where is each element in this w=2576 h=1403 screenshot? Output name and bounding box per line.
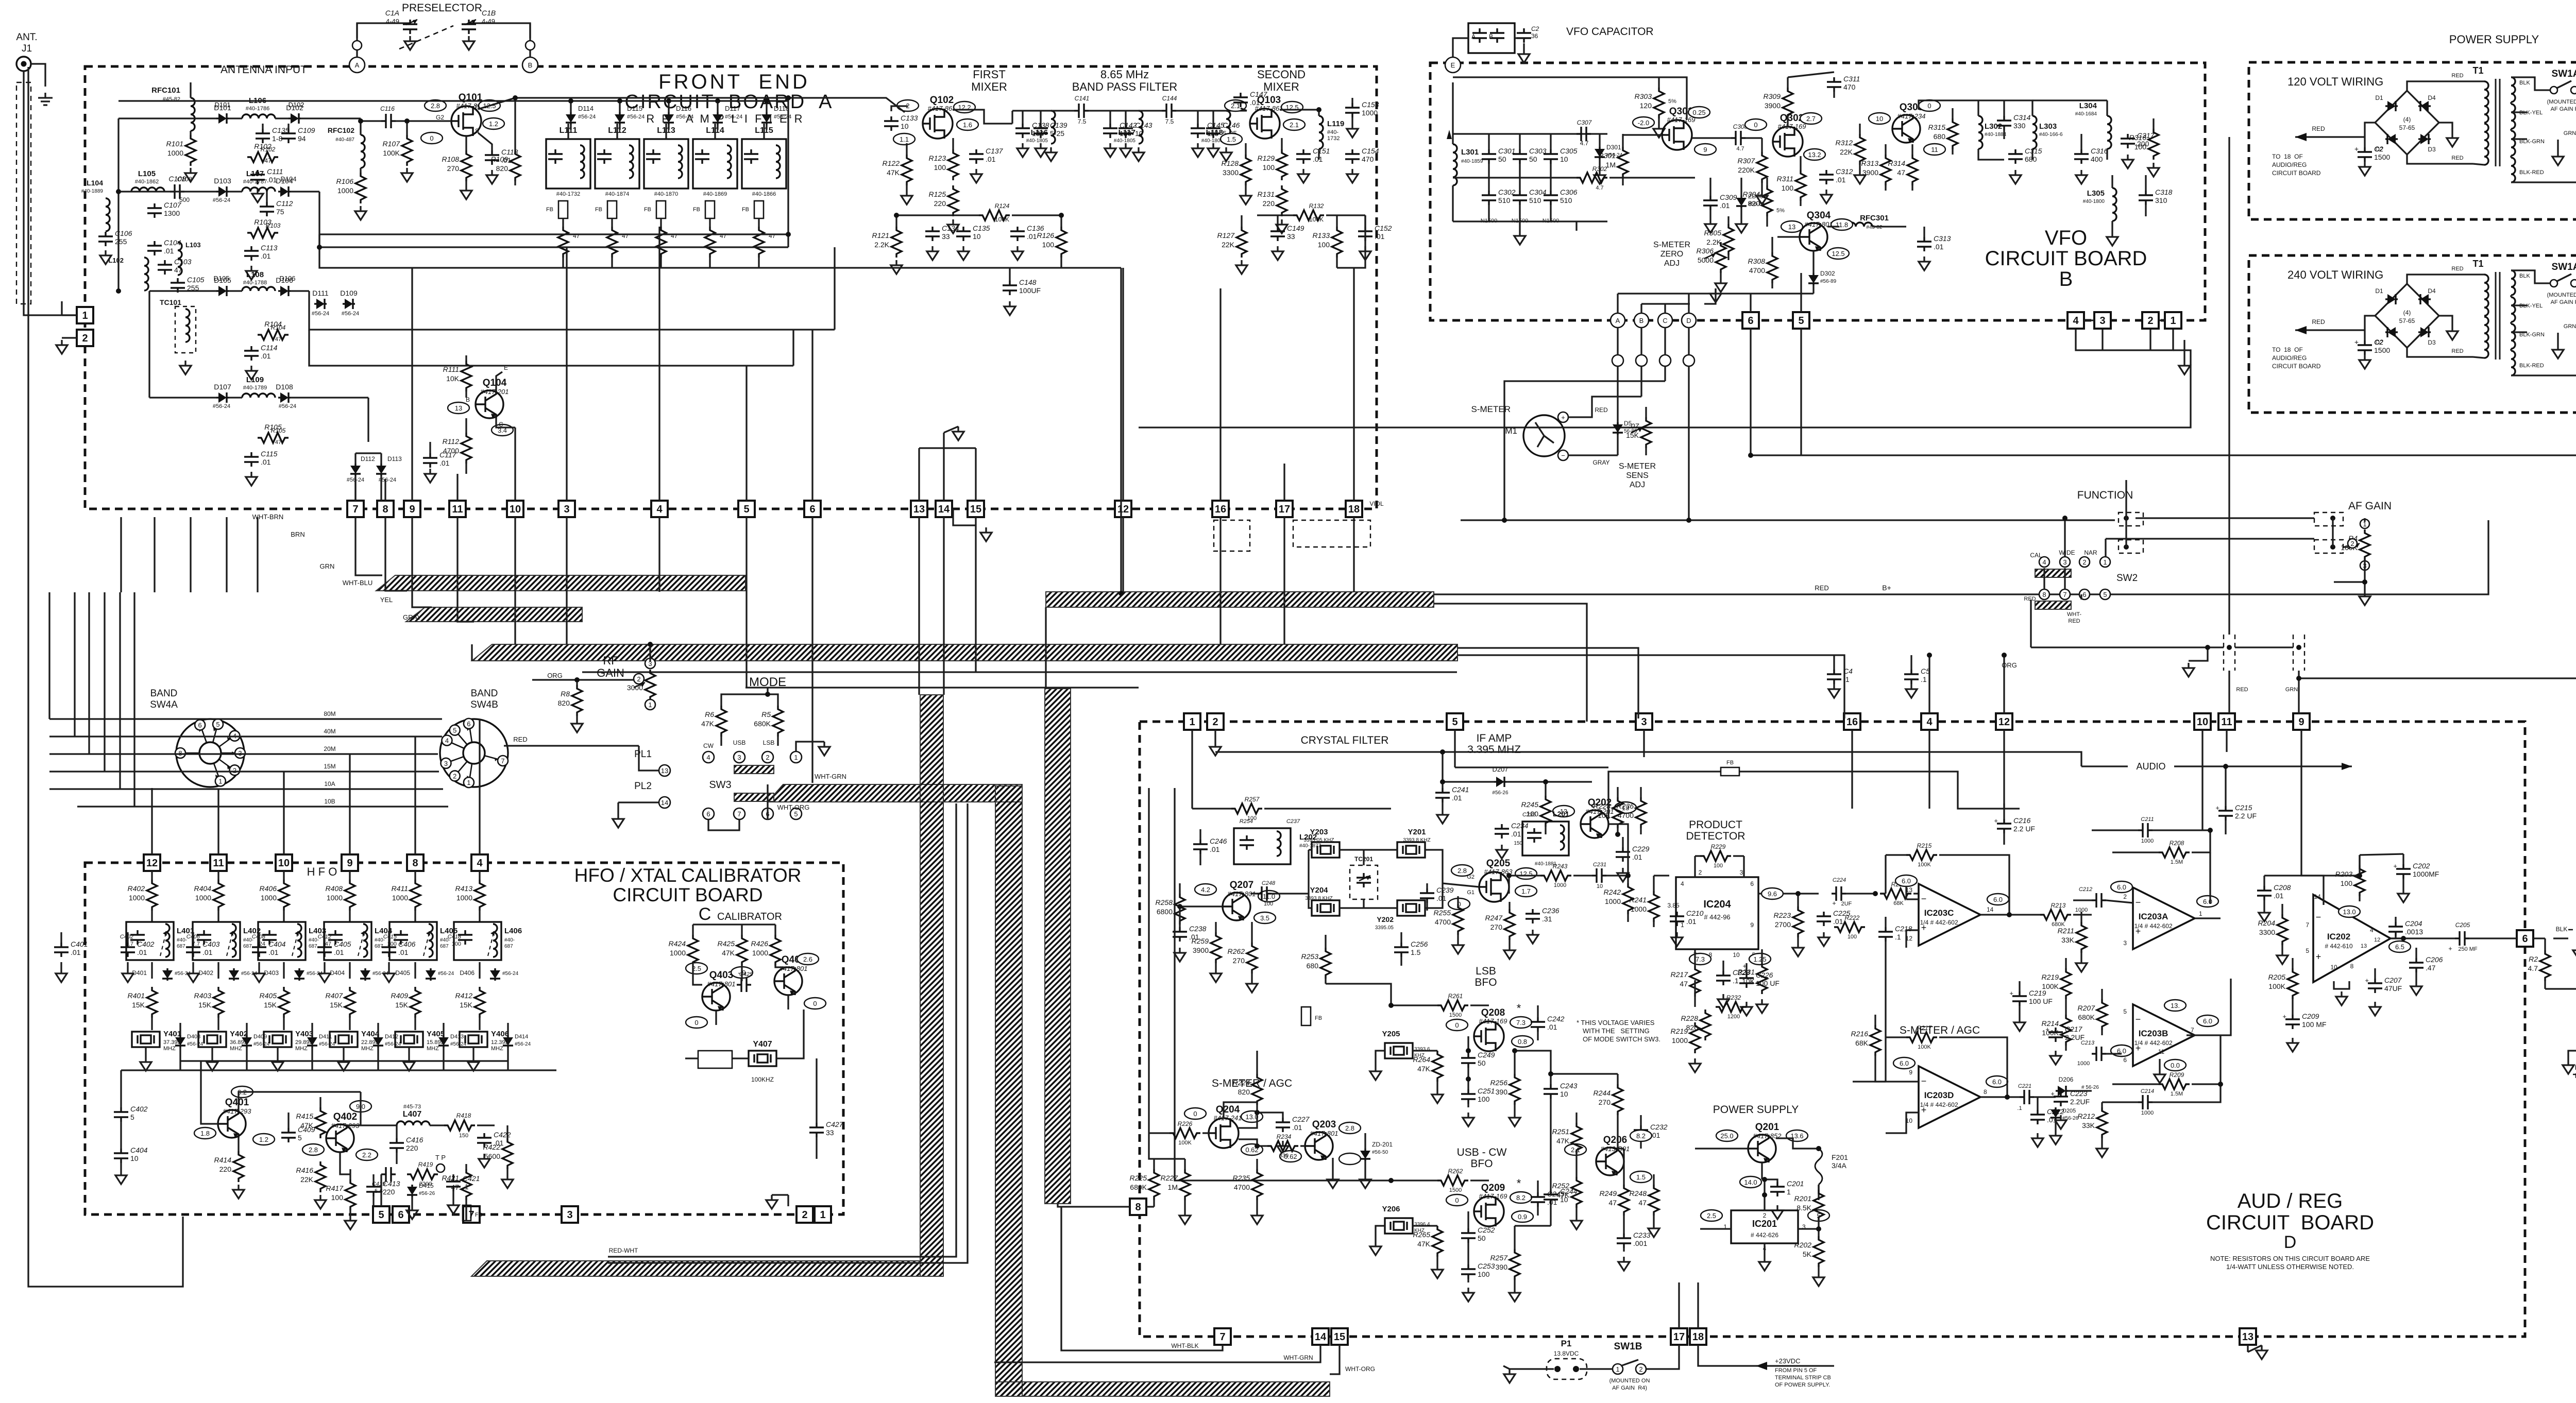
svg-text:#417-801: #417-801 <box>779 965 808 972</box>
svg-text:(MOUNTED ON: (MOUNTED ON <box>1609 1378 1650 1384</box>
VFO capacitor wiring <box>1453 38 1468 65</box>
svg-text:.01: .01 <box>268 948 279 956</box>
svg-text:10: 10 <box>1597 883 1603 889</box>
svg-text:1000: 1000 <box>670 949 686 957</box>
thin wires beside V1 <box>608 803 956 1257</box>
Q204 to term wiring <box>1256 1051 1258 1064</box>
svg-text:#56-26: #56-26 <box>419 1191 435 1196</box>
svg-text:.01: .01 <box>1375 232 1385 241</box>
svg-text:R242: R242 <box>1604 888 1621 896</box>
resistor R109 <box>510 150 520 181</box>
svg-text:220: 220 <box>383 1188 395 1196</box>
VFO tank ground <box>1514 231 1526 245</box>
Q301 ovals <box>1688 107 1710 118</box>
svg-text:#40-1684: #40-1684 <box>2075 111 2097 117</box>
svg-text:T P: T P <box>435 1154 446 1161</box>
vertical filter drops <box>117 155 119 192</box>
svg-text:687: 687 <box>309 944 317 949</box>
board A terminal 9 <box>404 501 420 517</box>
svg-text:MHZ: MHZ <box>491 1046 503 1052</box>
cap C314 <box>1997 116 2011 130</box>
svg-text:C427: C427 <box>826 1120 844 1128</box>
svg-text:R124: R124 <box>995 202 1010 210</box>
cap C152 <box>1358 227 1372 241</box>
svg-text:15K: 15K <box>330 1001 343 1009</box>
svg-text:11: 11 <box>2221 716 2232 728</box>
svg-text:2.8: 2.8 <box>309 1146 318 1154</box>
svg-text:+: + <box>2045 1025 2049 1033</box>
svg-text:1.5: 1.5 <box>1227 135 1236 143</box>
resistor R255 <box>1453 904 1463 935</box>
caps C134 C135 C136 <box>925 227 940 241</box>
svg-text:#56-24: #56-24 <box>279 403 296 409</box>
cap C151 <box>1296 149 1311 164</box>
cap C219 <box>2012 991 2027 1006</box>
inductor L305 <box>2112 188 2116 221</box>
svg-text:C210: C210 <box>1686 909 1704 917</box>
resistor R127 <box>1236 227 1247 258</box>
svg-text:RED: RED <box>2312 318 2325 326</box>
svg-text:TO 18 OF: TO 18 OF <box>2272 346 2303 353</box>
SW2 red wire down <box>2030 600 2031 647</box>
svg-text:L119: L119 <box>1327 119 1344 128</box>
svg-text:#56-24: #56-24 <box>676 114 693 120</box>
svg-text:R402: R402 <box>128 884 145 893</box>
svg-text:#417-293: #417-293 <box>223 1107 252 1115</box>
svg-text:2.5: 2.5 <box>1707 1212 1716 1220</box>
svg-text:Q205: Q205 <box>1486 858 1511 869</box>
svg-text:R125: R125 <box>929 190 946 198</box>
svg-text:10K: 10K <box>446 374 460 383</box>
tuned row bus <box>541 100 788 101</box>
svg-text:10: 10 <box>510 504 521 515</box>
diodes D112 D113 <box>354 464 356 466</box>
svg-text:#40-1874: #40-1874 <box>605 191 630 197</box>
svg-text:47: 47 <box>671 232 678 239</box>
svg-text:1.2: 1.2 <box>259 1136 268 1143</box>
svg-text:1000: 1000 <box>1605 897 1621 905</box>
diode D115 <box>619 112 620 114</box>
crystal Y205 <box>1385 1043 1413 1058</box>
board B terminal C <box>1658 313 1672 328</box>
svg-text:AUDIO: AUDIO <box>2136 761 2165 772</box>
FB bead <box>463 1205 471 1221</box>
calibrator Q403 <box>702 983 730 1011</box>
+23VDC feed <box>1698 1345 1834 1366</box>
resistor R124 network <box>979 210 1010 220</box>
svg-text:D4: D4 <box>2428 94 2436 101</box>
svg-text:MHZ: MHZ <box>230 1046 242 1052</box>
svg-text:5: 5 <box>2306 947 2309 954</box>
svg-text:47K: 47K <box>1417 1065 1431 1073</box>
resistor R229 <box>1700 851 1731 861</box>
junction <box>574 677 580 682</box>
svg-text:2: 2 <box>766 754 769 761</box>
choke RFC102 <box>361 135 365 168</box>
Q404 ovals <box>797 953 819 965</box>
svg-text:1300: 1300 <box>164 209 180 217</box>
svg-text:1.8: 1.8 <box>200 1130 210 1137</box>
svg-text:5000: 5000 <box>1698 256 1714 264</box>
svg-text:1000: 1000 <box>129 894 145 902</box>
svg-text:.01: .01 <box>1632 853 1642 861</box>
svg-text:#56-24: #56-24 <box>342 311 359 317</box>
IC203A output <box>2195 917 2210 919</box>
cap C317 <box>2121 134 2135 148</box>
resistor R105 <box>258 433 289 443</box>
svg-text:4.7: 4.7 <box>1596 185 1603 191</box>
wire Q202 to product det <box>1608 824 1628 876</box>
svg-text:A: A <box>1471 33 1476 40</box>
board A terminal 15 <box>968 501 984 517</box>
svg-text:220: 220 <box>406 1144 418 1152</box>
resistor R416 <box>315 1161 326 1192</box>
svg-text:WHT-: WHT- <box>2067 611 2081 618</box>
cap C221 etc <box>2020 1090 2034 1104</box>
svg-text:5: 5 <box>1452 716 1458 728</box>
svg-text:R224: R224 <box>1233 1079 1250 1087</box>
SW2 pins lower <box>2039 589 2049 600</box>
svg-text:R262: R262 <box>1228 947 1245 955</box>
svg-text:Q206: Q206 <box>1603 1135 1627 1145</box>
cap C427 <box>809 1123 824 1137</box>
board C terminal 7 <box>463 1206 480 1223</box>
diode D205 <box>2055 1107 2056 1109</box>
svg-text:.01: .01 <box>1836 176 1846 184</box>
svg-text:100: 100 <box>452 941 461 947</box>
svg-text:C154: C154 <box>1362 147 1379 155</box>
Q207 base wiring <box>1180 905 1223 907</box>
svg-text:RFC101: RFC101 <box>151 86 180 95</box>
svg-text:5: 5 <box>794 810 798 818</box>
Q303 ovals <box>1919 100 1940 111</box>
svg-text:18: 18 <box>1348 504 1360 515</box>
svg-text:4: 4 <box>477 858 483 869</box>
svg-text:SW2: SW2 <box>2116 573 2138 584</box>
resistor R217b <box>1906 1032 1937 1042</box>
svg-text:94: 94 <box>298 134 306 143</box>
svg-text:MHZ: MHZ <box>427 1046 439 1052</box>
svg-text:L201: L201 <box>1553 810 1569 818</box>
svg-text:C227: C227 <box>1292 1115 1310 1123</box>
svg-text:WHT-ORG: WHT-ORG <box>1345 1365 1375 1373</box>
svg-text:R217: R217 <box>1917 1024 1933 1032</box>
cap C4 at VFO supply <box>1827 670 1841 684</box>
resistor R207 <box>2097 999 2107 1030</box>
svg-text:13.8VDC: 13.8VDC <box>1554 1350 1579 1357</box>
svg-text:2: 2 <box>1699 869 1702 876</box>
svg-text:8: 8 <box>382 504 388 515</box>
wire WHT-GRN lower <box>994 1345 1320 1362</box>
resistor R259 <box>1211 932 1221 963</box>
svg-text:2: 2 <box>2147 315 2153 327</box>
svg-text:4-49: 4-49 <box>386 18 399 25</box>
svg-text:11: 11 <box>1931 146 1938 153</box>
svg-text:−: − <box>2316 912 2321 922</box>
resistor R8 <box>572 685 582 716</box>
svg-text:C229: C229 <box>1632 845 1650 853</box>
svg-text:R203: R203 <box>2335 870 2353 878</box>
svg-text:R5: R5 <box>761 710 771 718</box>
svg-text:5%: 5% <box>1668 98 1676 105</box>
svg-text:S-METER / AGC: S-METER / AGC <box>1900 1024 1980 1036</box>
resistor R241 <box>1649 891 1659 922</box>
svg-text:1000: 1000 <box>2141 1110 2154 1116</box>
svg-text:#56-24: #56-24 <box>627 114 645 120</box>
cap C232 <box>1634 1125 1648 1140</box>
board A extra bus wires <box>319 233 788 235</box>
svg-text:1: 1 <box>794 754 798 761</box>
bridge output wires <box>2365 123 2375 137</box>
top feed wire row <box>515 97 788 98</box>
svg-text:FB: FB <box>595 207 602 213</box>
svg-text:H F O: H F O <box>307 865 337 878</box>
svg-text:R255: R255 <box>1434 909 1451 917</box>
inductor L303 <box>2032 116 2037 149</box>
resistor R212 <box>2097 1107 2107 1138</box>
trimmer TC201 box <box>1350 865 1378 899</box>
svg-text:BFO: BFO <box>1475 977 1497 988</box>
svg-text:8.2: 8.2 <box>1516 1194 1526 1202</box>
wire bundle fan 4 <box>1458 655 1844 718</box>
svg-text:100K: 100K <box>1178 1140 1192 1146</box>
board C terminal 9 <box>342 854 358 871</box>
board B terminal links <box>2084 319 2094 321</box>
board A terminal 10 <box>507 501 523 517</box>
svg-text:3: 3 <box>2063 558 2066 566</box>
svg-text:C224: C224 <box>1833 877 1846 883</box>
svg-text:R127: R127 <box>1217 231 1235 239</box>
cap C215 <box>2218 806 2233 820</box>
resistor R262b <box>1437 1175 1468 1186</box>
svg-text:C246: C246 <box>1210 837 1227 845</box>
cap C217 <box>2048 1028 2063 1042</box>
svg-text:470: 470 <box>1843 83 1856 91</box>
svg-text:#413-B01: #413-B01 <box>1601 1145 1630 1153</box>
svg-text:R419: R419 <box>418 1161 433 1168</box>
svg-text:3: 3 <box>444 760 448 767</box>
svg-text:RF: RF <box>603 654 618 667</box>
FB bead 2 <box>1721 767 1739 776</box>
board D terminal 7 <box>1214 1328 1231 1345</box>
svg-text:D116: D116 <box>676 105 691 112</box>
svg-text:D115: D115 <box>627 105 642 112</box>
svg-text:10B: 10B <box>324 798 335 805</box>
svg-text:(MOUNTED ON: (MOUNTED ON <box>2547 99 2576 105</box>
board D terminal 17 <box>1671 1328 1687 1345</box>
svg-text:C135: C135 <box>973 224 990 232</box>
svg-text:R303: R303 <box>1635 92 1652 100</box>
HFO oscillator section L406/Y406 <box>474 880 485 911</box>
svg-text:SW4A: SW4A <box>150 699 178 710</box>
cap C149 <box>1270 227 1285 241</box>
Q207 transistor <box>1223 893 1250 920</box>
svg-text:1000ΜF: 1000ΜF <box>2413 870 2439 878</box>
svg-text:390: 390 <box>1496 1263 1508 1271</box>
board D inner verticals <box>1454 730 1455 767</box>
svg-text:C137: C137 <box>986 147 1004 155</box>
filter wiring <box>1309 849 1312 850</box>
svg-text:15: 15 <box>970 504 981 515</box>
svg-text:-2.0: -2.0 <box>1638 119 1649 127</box>
svg-text:12: 12 <box>2374 937 2380 943</box>
svg-text:#56-24: #56-24 <box>213 197 230 203</box>
svg-text:680: 680 <box>1307 962 1319 970</box>
svg-text:6: 6 <box>2522 933 2528 945</box>
svg-text:255: 255 <box>115 237 127 246</box>
transformer T1 primary <box>2484 81 2488 123</box>
svg-text:10: 10 <box>2197 716 2208 728</box>
resistor R236 <box>1636 797 1646 828</box>
transistor Q401 <box>218 1110 246 1138</box>
wire to board D terminal 12 <box>2003 655 2005 713</box>
svg-text:RFC301: RFC301 <box>1860 214 1889 223</box>
resistor R235 <box>1252 1169 1262 1200</box>
transistor Q206 <box>1596 1148 1624 1175</box>
svg-text:L303: L303 <box>2039 122 2057 131</box>
svg-text:C252: C252 <box>1478 1226 1495 1234</box>
svg-text:680K: 680K <box>754 720 771 728</box>
svg-text:C215: C215 <box>2235 803 2252 812</box>
cap C115 <box>244 452 259 467</box>
VFO capacitor C2 <box>1517 28 1531 43</box>
svg-text:C152: C152 <box>1375 224 1392 232</box>
cap C107 <box>147 203 162 218</box>
cap C5 at VFO supply <box>1904 670 1919 684</box>
svg-text:15K: 15K <box>460 1001 473 1009</box>
crystal Y202 <box>1397 900 1425 916</box>
diode D108 <box>278 397 280 398</box>
wire bundle B1 (front end to mode area) <box>376 575 745 591</box>
svg-text:GRN: GRN <box>2285 687 2298 693</box>
svg-text:L102: L102 <box>108 256 124 264</box>
op-amp IC203A <box>2133 887 2195 949</box>
svg-text:PL1: PL1 <box>634 749 652 760</box>
svg-text:0: 0 <box>430 134 433 142</box>
svg-text:47: 47 <box>275 439 281 446</box>
board D terminal 8 (left edge) <box>1130 1199 1146 1215</box>
Q104 collector wire <box>496 417 515 427</box>
svg-text:FB: FB <box>644 207 651 213</box>
resistor R204 <box>2277 914 2287 945</box>
svg-text:GAIN: GAIN <box>597 666 624 679</box>
resistor R258 <box>1175 894 1185 925</box>
svg-text:18: 18 <box>1692 1331 1704 1343</box>
inductor L103 <box>178 242 182 275</box>
circuit board D outline (AUD/REG) <box>1140 722 2525 1337</box>
wire USB to Q206 <box>1550 1110 1551 1179</box>
svg-text:AUDIO/REG: AUDIO/REG <box>2272 161 2307 168</box>
capacitor C2 <box>2358 147 2372 162</box>
wire bundle B2 <box>406 607 582 622</box>
svg-text:L108: L108 <box>246 270 264 279</box>
svg-text:D104: D104 <box>280 175 296 183</box>
svg-text:C253: C253 <box>1478 1262 1495 1270</box>
svg-text:C: C <box>499 421 503 428</box>
long antenna wire to band switch <box>28 67 183 1287</box>
svg-text:C218: C218 <box>1895 925 1912 933</box>
Q201 ovals <box>1716 1130 1738 1141</box>
terminal 5 wire down <box>1800 329 1802 455</box>
svg-text:R236: R236 <box>1617 802 1634 810</box>
svg-text:17: 17 <box>1279 504 1290 515</box>
svg-text:LSB: LSB <box>763 739 775 746</box>
svg-text:ANT.: ANT. <box>16 32 37 43</box>
cap C153 <box>1345 103 1360 117</box>
long wire y1335 (mode feed) <box>745 687 1139 688</box>
wire connector RED <box>2228 137 2230 635</box>
svg-text:7.5: 7.5 <box>1078 118 1087 125</box>
svg-text:10: 10 <box>973 232 981 241</box>
svg-text:D109: D109 <box>340 289 358 297</box>
wire bundle H from SW3 <box>768 784 1022 802</box>
svg-text:6.0: 6.0 <box>1992 1078 2002 1086</box>
svg-text:R232: R232 <box>1726 994 1741 1001</box>
svg-text:#40-: #40- <box>177 937 187 943</box>
diode D107 <box>216 397 218 398</box>
svg-text:2: 2 <box>802 1209 807 1221</box>
svg-text:5: 5 <box>2103 591 2107 598</box>
svg-text:.01: .01 <box>494 1139 504 1147</box>
diode D106 <box>278 290 280 292</box>
FET Q101 RF amplifier <box>451 106 481 136</box>
inductor L108 <box>242 287 275 291</box>
junction <box>2002 653 2007 658</box>
svg-text:1: 1 <box>2170 315 2176 327</box>
svg-text:CIRCUIT BOARD: CIRCUIT BOARD <box>2272 363 2321 370</box>
svg-text:ANTENNA INPUT: ANTENNA INPUT <box>221 64 307 76</box>
board D terminal 10 <box>2194 713 2211 730</box>
svg-text:BAND: BAND <box>150 688 178 699</box>
svg-text:4: 4 <box>1681 880 1684 887</box>
board C terminal 1 <box>815 1206 831 1223</box>
board D terminal 4 <box>1921 713 1938 730</box>
svg-text:2.7: 2.7 <box>1806 115 1816 123</box>
svg-text:270: 270 <box>447 164 460 173</box>
svg-text:R6: R6 <box>705 710 714 718</box>
resistor R213 <box>2040 910 2071 920</box>
svg-text:Q207: Q207 <box>1230 880 1253 891</box>
terminal wire 1 <box>217 870 219 871</box>
svg-text:1: 1 <box>820 1209 825 1221</box>
svg-text:S-METER / AGC: S-METER / AGC <box>1212 1077 1292 1089</box>
svg-text:#40-1800: #40-1800 <box>2083 199 2105 204</box>
Q203 ovals <box>1339 1122 1361 1134</box>
svg-text:9: 9 <box>1909 1069 1912 1076</box>
svg-text:15K: 15K <box>132 1001 145 1009</box>
svg-text:100: 100 <box>1318 241 1330 249</box>
bridge rectifier D1-D4 <box>2375 91 2439 155</box>
svg-text:100 UF: 100 UF <box>1756 979 1780 987</box>
svg-text:C206: C206 <box>2426 955 2443 964</box>
wire from D terminal down <box>1688 381 1689 520</box>
svg-text:BAND: BAND <box>471 688 498 699</box>
svg-text:RED: RED <box>2451 266 2463 272</box>
svg-text:DETECTOR: DETECTOR <box>1686 830 1745 842</box>
wire J1 to shield <box>23 71 24 82</box>
cap C208 <box>2257 886 2272 900</box>
transformer T1 secondary <box>2511 270 2515 295</box>
inductor L407 <box>397 1121 430 1125</box>
svg-text:R216: R216 <box>1851 1030 1869 1038</box>
svg-text:C217: C217 <box>2065 1025 2083 1033</box>
svg-text:687: 687 <box>440 944 449 949</box>
terminal B on board A <box>522 57 538 73</box>
resistor R308 <box>1767 252 1777 283</box>
inductor L304 <box>2107 116 2111 149</box>
svg-text:C202: C202 <box>2413 862 2430 870</box>
svg-text:6: 6 <box>706 810 710 818</box>
